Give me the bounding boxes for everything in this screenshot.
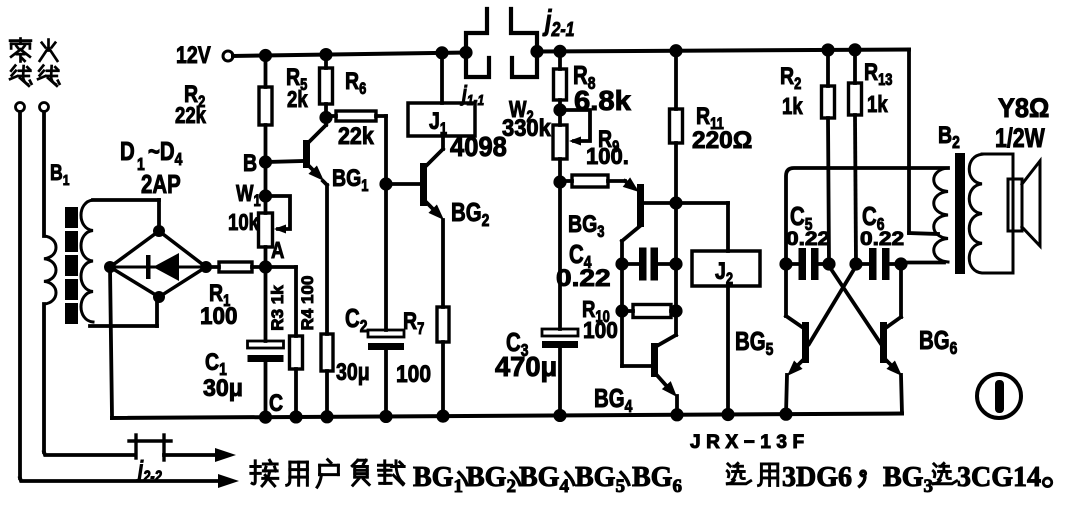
svg-text:100: 100 [200, 302, 237, 329]
svg-text:B: B [243, 149, 257, 177]
svg-text:R4 100: R4 100 [298, 276, 317, 331]
svg-text:3CG14: 3CG14 [957, 462, 1041, 493]
svg-text:JRX−13F: JRX−13F [690, 432, 810, 453]
svg-text:0.22: 0.22 [786, 228, 830, 249]
svg-text:330k: 330k [502, 114, 551, 141]
svg-text:22k: 22k [338, 122, 374, 150]
svg-text:Y8Ω: Y8Ω [998, 92, 1049, 123]
svg-text:100: 100 [583, 317, 618, 343]
svg-text:1k: 1k [867, 92, 888, 117]
svg-text:A: A [271, 238, 284, 263]
svg-text:2AP: 2AP [141, 170, 181, 199]
svg-text:470μ: 470μ [495, 351, 557, 382]
svg-text:30μ: 30μ [336, 358, 370, 386]
svg-text:2k: 2k [287, 87, 308, 112]
svg-text:220Ω: 220Ω [692, 127, 752, 154]
svg-text:1k: 1k [782, 94, 803, 119]
svg-text:6.8k: 6.8k [574, 86, 631, 117]
svg-text:1/2W: 1/2W [995, 124, 1045, 154]
svg-text:0.22: 0.22 [860, 228, 904, 249]
svg-text:4098: 4098 [450, 131, 507, 162]
svg-text:22k: 22k [175, 103, 206, 128]
svg-text:10k: 10k [228, 210, 259, 235]
svg-text:R3 1k: R3 1k [268, 285, 287, 331]
svg-text:30μ: 30μ [203, 374, 243, 402]
svg-text:C: C [269, 389, 283, 417]
svg-text:100: 100 [396, 359, 431, 387]
svg-text:3DG6: 3DG6 [782, 462, 852, 493]
svg-text:D: D [120, 137, 135, 166]
svg-text:100.: 100. [586, 143, 629, 169]
svg-text:12V: 12V [176, 41, 211, 69]
svg-text:0.22: 0.22 [556, 264, 611, 292]
